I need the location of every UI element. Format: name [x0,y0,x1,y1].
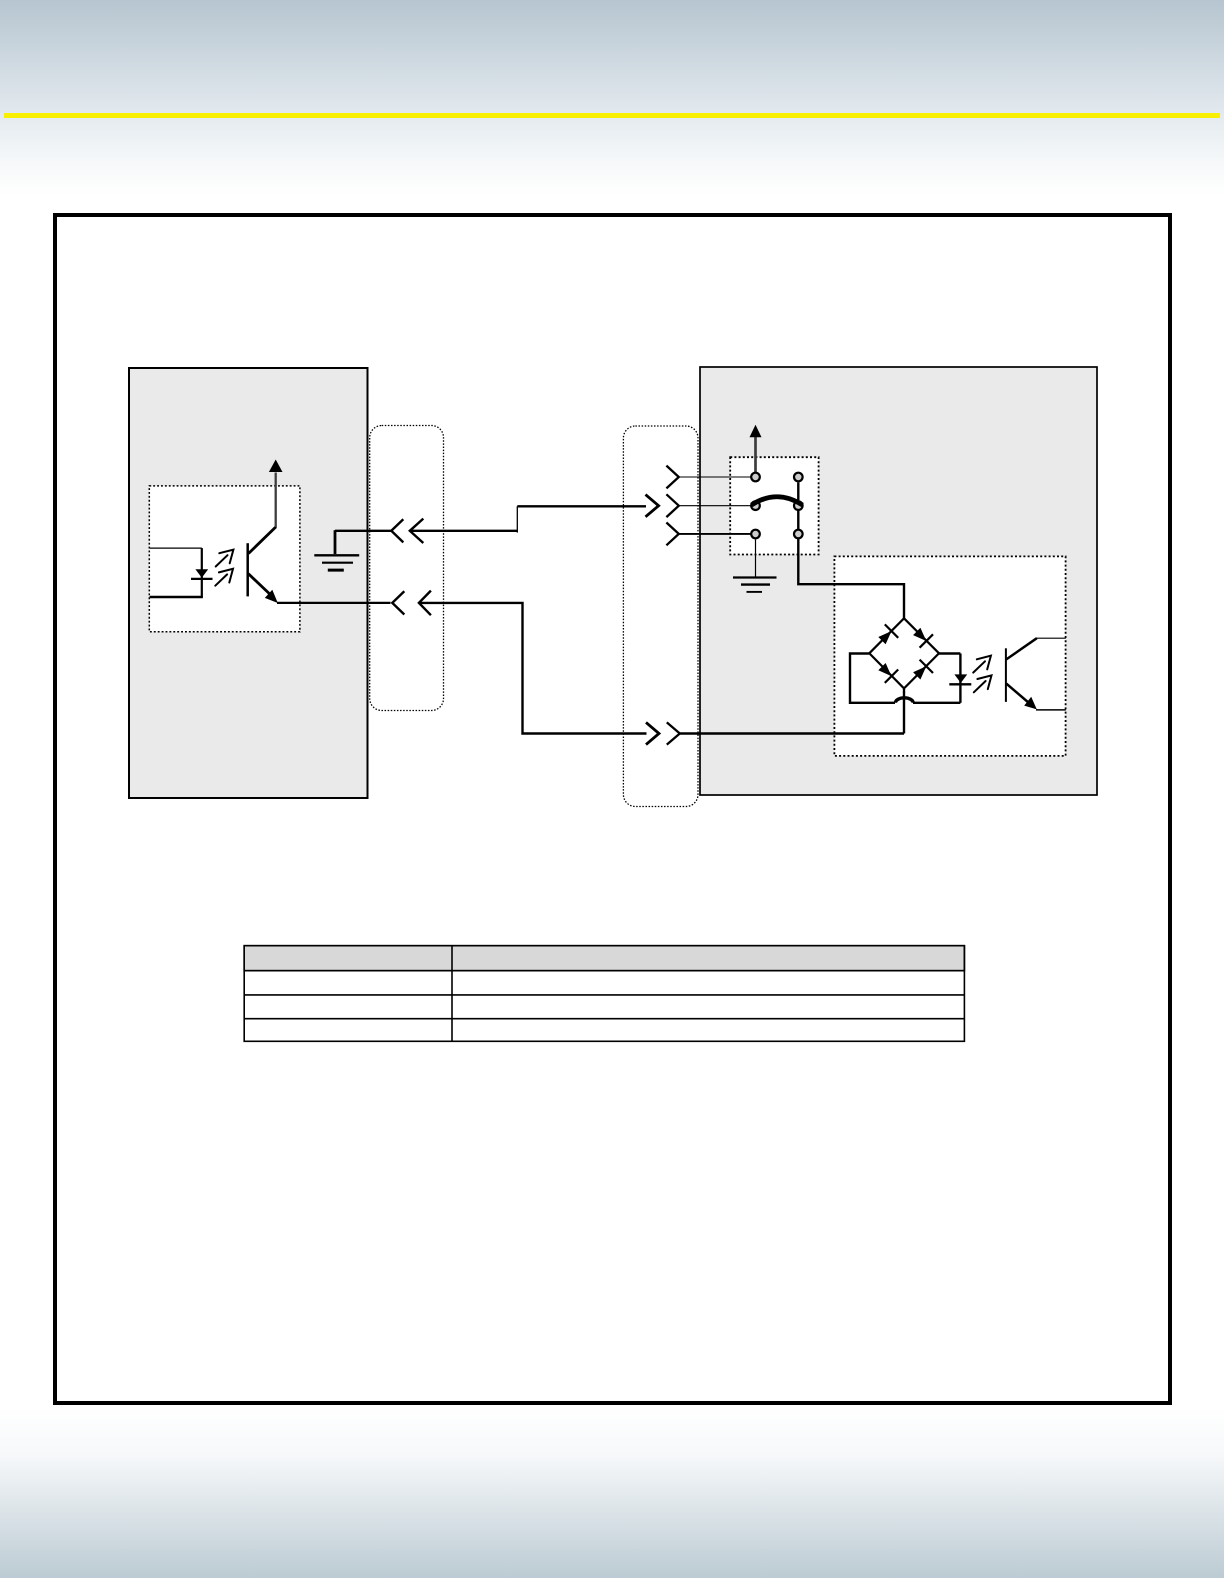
PC1 phototransistor [248,473,278,604]
CN2 row3 pin chevron and stub [666,523,750,546]
connector CN1 (left, dotted) [370,426,444,711]
jumper pad 1 [751,473,760,482]
bridge rectifier diamond [869,618,939,688]
left device box [129,368,368,798]
bridge diode D2 (upper-left) [878,624,898,644]
jumper block J1 enclosure [730,457,818,554]
CN2 row4 arrowhead and pin chevron [646,722,680,744]
jumper wire arc (pins 2-5) [752,497,803,505]
jumper pad 5 [794,501,803,510]
CN2 row2 arrowhead, pin chevron and stub [646,494,751,517]
yellow rule [4,113,1220,118]
jumper pad 6 [794,530,803,539]
PC1 LED input wires [150,548,203,597]
optocoupler PC1 enclosure [149,486,300,632]
CN1 pin chevrons row2 [392,591,431,616]
jumper pad 2 [751,501,760,510]
bridge diode D4 (lower-right) [913,660,933,680]
jumper-setting table [244,946,964,1042]
ground (left) [314,530,359,570]
power arrow (jumper pin 1) [750,425,762,473]
right device box [700,367,1097,795]
PC1 light arrows [215,550,233,586]
wire: PC1 emitter to CN2 row4 (signal B) [277,603,647,734]
wire: bridge bottom to row4 wire [903,689,905,734]
PC2 light arrows [973,656,991,693]
wire: CN2 row4 to bridge bottom node [680,732,904,734]
wire: bridge left loop with hop [850,654,960,703]
CN1 pin chevrons row1 [391,519,423,543]
ground (right, below jumper) [733,578,777,592]
jumper pad 4 [794,473,803,482]
wire: jumper pin 3 to ground [755,540,757,577]
wire: bridge right to LED2 [939,654,961,703]
jumper pad 3 [751,530,760,539]
PC1 LED [191,569,213,579]
wire: jumper right column to bridge top [798,483,904,619]
wire: ground to CN2 row2 (signal A) [335,506,646,532]
page header gradient [0,0,1224,196]
bridge diode D1 (lower-left) [878,663,898,683]
content border box [53,213,1172,1405]
PC2 LED [949,674,971,684]
bridge diode D3 (upper-right) [913,628,933,648]
page footer gradient [0,1408,1224,1578]
power arrow (PC1 collector) [269,460,283,473]
optocoupler PC2 enclosure [834,556,1065,756]
connector CN2 (right, dotted) [623,426,698,807]
PC2 phototransistor [1006,638,1066,710]
CN2 row1 pin chevron and stub [666,466,750,489]
